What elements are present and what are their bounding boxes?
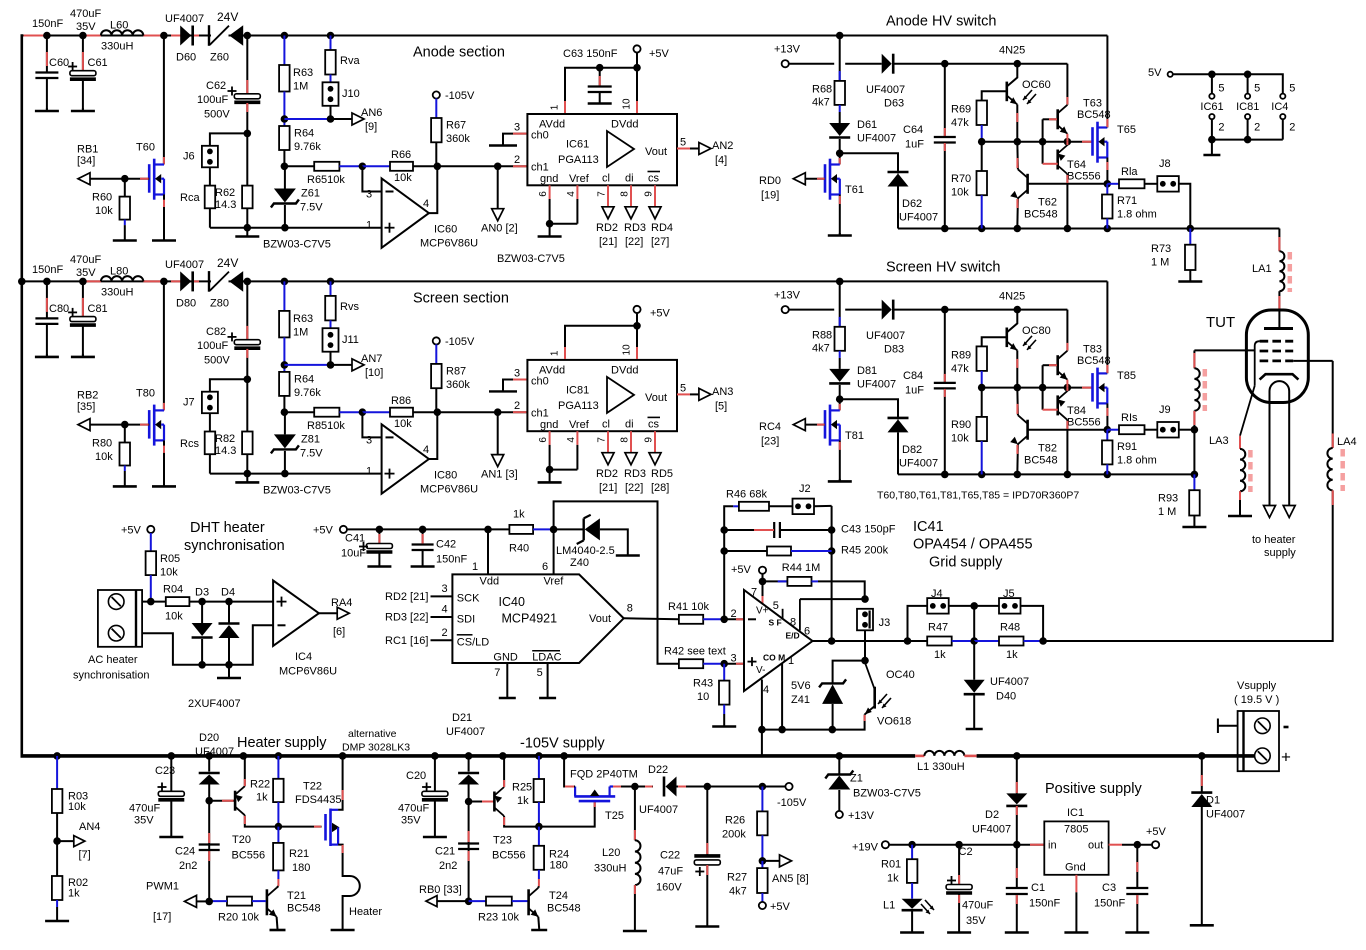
wire J2 right bbox=[814, 505, 832, 507]
resistor R47 1k bbox=[927, 637, 952, 646]
wire red stub C64 bbox=[944, 128, 946, 136]
wire OC60 collector bbox=[1007, 64, 1018, 87]
svg-text:[9]: [9] bbox=[365, 121, 377, 133]
svg-text:+5V: +5V bbox=[313, 525, 334, 537]
resistor R22 1k bbox=[273, 779, 284, 802]
wire pin2 stub IC81 bbox=[1247, 119, 1249, 139]
svg-text:D61: D61 bbox=[857, 119, 877, 131]
wire blue stub R87 bbox=[435, 344, 437, 364]
node rail/R63 bbox=[281, 278, 289, 286]
connector AC heater input bbox=[98, 590, 142, 647]
ground R93 bbox=[1182, 516, 1206, 528]
terminal arrow RB2 bbox=[78, 419, 90, 431]
wire red C2b bbox=[958, 895, 960, 903]
wire T62 collector bbox=[1016, 142, 1019, 170]
svg-text:Screen section: Screen section bbox=[413, 290, 509, 306]
svg-text:24V: 24V bbox=[217, 256, 238, 270]
svg-text:7: 7 bbox=[597, 437, 608, 443]
wire T80 drain bbox=[163, 281, 165, 410]
wire red stub C41 bbox=[378, 534, 380, 544]
svg-text:10k: 10k bbox=[68, 801, 86, 813]
wire input row bbox=[284, 411, 314, 413]
wire g1 out bbox=[1293, 360, 1333, 362]
node rail/T60 drain bbox=[160, 32, 168, 40]
node gate T25 bbox=[535, 823, 543, 831]
node 5V a bbox=[1208, 71, 1216, 79]
node D21/T23 bbox=[465, 798, 473, 806]
wire blue R44 l bbox=[778, 580, 788, 582]
tube beam plate bbox=[1260, 374, 1299, 379]
svg-text:MCP6V86U: MCP6V86U bbox=[279, 666, 337, 678]
wire gate row bbox=[982, 141, 1092, 143]
wire AC1 bbox=[142, 601, 166, 603]
terminal arrow RD2 bbox=[602, 207, 614, 219]
svg-text:R8510k: R8510k bbox=[307, 420, 345, 432]
core LA2 bbox=[1203, 369, 1208, 411]
tube grid row 2 bbox=[1260, 350, 1294, 353]
pin SCK bbox=[431, 595, 453, 597]
svg-text:D2: D2 bbox=[985, 809, 999, 821]
svg-text:R26: R26 bbox=[725, 815, 745, 827]
inductor LA1 bbox=[1279, 251, 1284, 291]
wire Z41 top bbox=[833, 661, 865, 684]
wire blue stub R67 bbox=[435, 99, 437, 119]
wire C63 top bbox=[599, 68, 601, 86]
svg-text:C41: C41 bbox=[345, 533, 365, 545]
node opto collector bbox=[1014, 306, 1022, 314]
terminal arrow RD2 bbox=[602, 453, 614, 465]
wire g2 from LA2 bbox=[1194, 349, 1254, 351]
terminal bar minus bbox=[1217, 719, 1219, 734]
wire to AN6 bbox=[331, 118, 353, 120]
svg-text:T23: T23 bbox=[493, 835, 512, 847]
transistor T80 MOSFET bbox=[149, 405, 164, 446]
zener Z1 BZW03-C7V5 bbox=[825, 771, 853, 790]
wire J8 to rail bbox=[1179, 184, 1191, 229]
svg-text:CS/LD: CS/LD bbox=[457, 637, 489, 649]
node PWM1 bbox=[205, 898, 213, 906]
svg-text:OC40: OC40 bbox=[886, 669, 915, 681]
node T61 drain bbox=[836, 150, 844, 158]
svg-text:R64: R64 bbox=[294, 128, 314, 140]
jumper J11 bbox=[323, 328, 339, 352]
node opamp out bbox=[434, 163, 442, 171]
svg-text:9: 9 bbox=[644, 437, 655, 443]
wire to D61 bbox=[839, 112, 841, 123]
wire AN0 [2] bbox=[497, 166, 499, 208]
svg-text:470uF: 470uF bbox=[70, 8, 101, 20]
node output rail bbox=[941, 471, 949, 479]
wire R45 left bbox=[724, 550, 767, 552]
svg-text:RB1: RB1 bbox=[77, 144, 98, 156]
node gate row bbox=[1039, 138, 1047, 146]
svg-text:IC80: IC80 bbox=[434, 469, 457, 481]
resistor R24 180 bbox=[534, 846, 545, 870]
svg-text:1 M: 1 M bbox=[1151, 257, 1169, 269]
svg-text:8: 8 bbox=[790, 617, 796, 629]
wire red stub in bbox=[1030, 844, 1044, 846]
opto OC40 emitter arrow bbox=[865, 706, 875, 715]
svg-text:35V: 35V bbox=[966, 915, 986, 927]
svg-text:D81: D81 bbox=[857, 365, 877, 377]
svg-text:IC4: IC4 bbox=[1271, 101, 1288, 113]
wire red R24 bot bbox=[538, 879, 540, 886]
node rail/R88 bbox=[836, 278, 844, 286]
svg-text:[22]: [22] bbox=[625, 236, 643, 248]
svg-text:10k: 10k bbox=[394, 418, 412, 430]
svg-text:2: 2 bbox=[1218, 122, 1224, 134]
pin 6 stub red bbox=[549, 185, 551, 199]
node C63 bbox=[596, 64, 604, 72]
svg-text:D62: D62 bbox=[902, 198, 922, 210]
node RB1 gate bbox=[121, 175, 129, 183]
svg-text:9: 9 bbox=[644, 191, 655, 197]
wire to D81 bbox=[839, 358, 841, 369]
wire blue stub Rvs bot bbox=[330, 320, 332, 328]
wire blue R01 top bbox=[911, 845, 913, 860]
svg-text:AN2: AN2 bbox=[712, 140, 733, 152]
wire blue R24 bot bbox=[538, 870, 540, 879]
svg-text:UF4007: UF4007 bbox=[639, 804, 678, 816]
svg-text:J3: J3 bbox=[879, 617, 891, 629]
node C64 top bbox=[941, 306, 949, 314]
svg-text:5V6: 5V6 bbox=[791, 680, 811, 692]
svg-text:AC heater: AC heater bbox=[88, 654, 138, 666]
svg-text:R64: R64 bbox=[294, 373, 314, 385]
node R64 tap bbox=[281, 115, 289, 123]
wire C2 bottom bbox=[958, 894, 960, 931]
wire blue R26 bot bbox=[761, 835, 763, 861]
wire Rla to J8 bbox=[1145, 183, 1158, 185]
wire T21 emitter bbox=[276, 917, 279, 929]
svg-text:L20: L20 bbox=[602, 847, 620, 859]
svg-text:200k: 200k bbox=[722, 829, 746, 841]
wire red stub T62e bbox=[1016, 199, 1018, 208]
svg-text:[35]: [35] bbox=[77, 401, 95, 413]
wire D61 bottom bbox=[839, 139, 841, 153]
resistor R80 10k bbox=[120, 443, 131, 466]
node output rail bbox=[1104, 471, 1112, 479]
LED L1 bbox=[902, 899, 923, 911]
resistor R44 1M bbox=[787, 577, 811, 586]
wire Vout bbox=[690, 393, 699, 395]
node gnd pin bbox=[546, 220, 554, 228]
wire red stub T64c bbox=[1066, 175, 1068, 183]
svg-text:1M: 1M bbox=[293, 81, 308, 93]
wire T82 collector bbox=[1016, 388, 1019, 416]
wire blue R91 bot bbox=[1106, 464, 1108, 474]
svg-text:T20: T20 bbox=[232, 834, 251, 846]
transistor T22 FDS4435 bbox=[326, 809, 340, 847]
wire AN5 bbox=[762, 860, 779, 862]
svg-text:Anode section: Anode section bbox=[413, 45, 505, 61]
svg-text:10k: 10k bbox=[394, 172, 412, 184]
svg-text:4N25: 4N25 bbox=[999, 290, 1025, 302]
wire blue R71 bot bbox=[1106, 219, 1108, 229]
wire J5 left bbox=[974, 605, 999, 607]
svg-text:+5V: +5V bbox=[731, 564, 752, 576]
wire GND pin bbox=[506, 663, 508, 697]
wire C61 top bbox=[82, 36, 84, 71]
wire red stub Vout bbox=[677, 393, 690, 395]
resistor R23 10k bbox=[486, 897, 512, 906]
svg-text:Z41: Z41 bbox=[791, 694, 810, 706]
svg-text:LA4: LA4 bbox=[1337, 436, 1357, 448]
node fb bbox=[359, 408, 367, 416]
svg-text:5: 5 bbox=[680, 137, 686, 149]
wire +13V bus bbox=[893, 63, 1067, 65]
wire C3 bottom bbox=[1136, 894, 1138, 931]
svg-text:500V: 500V bbox=[204, 109, 230, 121]
wire T81 drain bbox=[839, 399, 841, 410]
svg-text:AN3: AN3 bbox=[712, 386, 733, 398]
wire red stub T23c bbox=[503, 817, 505, 825]
transistor T24 BC548 bbox=[529, 888, 539, 917]
svg-text:Anode HV switch: Anode HV switch bbox=[886, 14, 996, 30]
resistor R43 10 bbox=[719, 681, 730, 705]
wire blue R93 top bbox=[1193, 474, 1195, 490]
wire red stub LA3t bbox=[1239, 436, 1241, 449]
pin 6 stub bbox=[549, 445, 551, 470]
node D20/T20 bbox=[205, 797, 213, 805]
node R05/R04 bbox=[147, 598, 155, 606]
node C82/J bbox=[244, 376, 252, 384]
capacitor C60 150nF bbox=[35, 73, 58, 79]
resistor R26 200k bbox=[757, 811, 768, 835]
wire R62 bottom bbox=[246, 208, 248, 227]
wire main 19V bus right bbox=[977, 754, 1254, 758]
svg-text:10k: 10k bbox=[160, 567, 178, 579]
svg-text:synchronisation: synchronisation bbox=[73, 670, 149, 682]
node gate row bbox=[1039, 384, 1047, 392]
svg-text:C23: C23 bbox=[155, 765, 175, 777]
svg-text:R6510k: R6510k bbox=[307, 174, 345, 186]
svg-text:150nF: 150nF bbox=[436, 554, 467, 566]
svg-text:R40: R40 bbox=[509, 543, 529, 555]
svg-text:8: 8 bbox=[620, 437, 631, 443]
resistor R41 10k bbox=[679, 615, 703, 624]
svg-text:24V: 24V bbox=[217, 10, 238, 24]
ground R43 bbox=[712, 714, 736, 727]
ground L20 bbox=[623, 926, 647, 932]
node AN6 tap bbox=[327, 115, 335, 123]
terminal arrow filament b bbox=[1283, 506, 1295, 518]
minus sign bbox=[386, 436, 394, 438]
wire T62 emitter bbox=[1016, 198, 1019, 228]
wire red L20b bbox=[634, 885, 636, 894]
wire blue R88 bot bbox=[839, 351, 841, 358]
svg-text:LM4040-2.5: LM4040-2.5 bbox=[556, 545, 615, 557]
node rail/C80 bbox=[43, 278, 51, 286]
wire C43 right bbox=[780, 529, 832, 531]
wire T22 gate bbox=[278, 826, 321, 828]
wire T60 drain bbox=[163, 36, 165, 165]
wire red stub source bbox=[839, 196, 841, 204]
svg-text:4k7: 4k7 bbox=[812, 342, 830, 354]
wire to plus bbox=[724, 663, 744, 665]
wire D1 bottom bbox=[1201, 807, 1203, 924]
svg-text:SDI: SDI bbox=[457, 613, 475, 625]
svg-text:Z60: Z60 bbox=[210, 52, 229, 64]
svg-text:-105V: -105V bbox=[445, 336, 475, 348]
svg-text:cs: cs bbox=[648, 173, 660, 185]
wire Vref to gnd bbox=[550, 223, 578, 225]
svg-text:Vref: Vref bbox=[569, 419, 590, 431]
wire opamp out bbox=[429, 412, 437, 459]
svg-text:BC556: BC556 bbox=[1067, 416, 1101, 428]
light arrows OC60 bbox=[1023, 90, 1036, 104]
wire red stub T25s bbox=[613, 786, 621, 788]
transistor T85 MOSFET bbox=[1093, 368, 1108, 409]
wire T84 collector bbox=[1066, 420, 1068, 475]
wire T65 drain bbox=[1106, 36, 1108, 128]
wire LDAC pin bbox=[547, 663, 549, 697]
wire D2 bottom bbox=[1016, 806, 1018, 845]
wire red stub emitter bbox=[1016, 113, 1018, 122]
node L20 bbox=[631, 783, 639, 791]
svg-text:2: 2 bbox=[514, 400, 520, 412]
overline CS bbox=[457, 634, 473, 636]
node Vref/Z40 bbox=[550, 526, 558, 534]
wire T61 drain bbox=[839, 153, 841, 164]
svg-text:RD5: RD5 bbox=[651, 468, 673, 480]
svg-text:C3: C3 bbox=[1102, 882, 1116, 894]
wire +13V to D63 bbox=[845, 63, 882, 65]
wire blue R23 left bbox=[469, 900, 486, 902]
svg-text:RD4: RD4 bbox=[651, 222, 673, 234]
wire R89 top bbox=[982, 337, 1007, 346]
wire Z81 bottom bbox=[284, 451, 286, 474]
light arrows OC80 bbox=[1023, 336, 1036, 350]
svg-text:R27: R27 bbox=[727, 872, 747, 884]
wire T85 source bbox=[1106, 403, 1108, 429]
svg-text:10: 10 bbox=[622, 344, 633, 356]
transistor T81 MOSFET bbox=[825, 405, 840, 446]
node output rail bbox=[978, 471, 986, 479]
wire D20 bottom bbox=[208, 785, 210, 801]
inductor L60 330uH bbox=[101, 30, 143, 35]
node AN0 [2] bbox=[494, 163, 502, 171]
zener Z61 7.5V BZW03-C7V5 bbox=[271, 189, 299, 208]
transistor T21 BC548 bbox=[267, 888, 277, 917]
svg-text:5: 5 bbox=[537, 667, 543, 679]
wire blue R02 bot bbox=[56, 900, 58, 907]
wire T23 collector bbox=[504, 816, 539, 827]
terminal arrow AN1 [3] bbox=[492, 455, 504, 467]
tube anode plate bbox=[1264, 327, 1293, 330]
svg-text:10k: 10k bbox=[951, 187, 969, 199]
terminal +5V IC41 bbox=[759, 567, 766, 574]
svg-text:Gnd: Gnd bbox=[1065, 862, 1086, 874]
svg-text:T84: T84 bbox=[1067, 405, 1086, 417]
node output rail bbox=[1064, 471, 1072, 479]
wire red stub T25d bbox=[565, 786, 574, 788]
svg-text:1k: 1k bbox=[256, 792, 268, 804]
resistor R71 1.8 ohm bbox=[1102, 195, 1113, 219]
resistor R73 1M bbox=[1185, 245, 1196, 270]
pin 2 IC61 bbox=[1209, 114, 1214, 119]
wire red stub source bbox=[839, 442, 841, 450]
svg-text:out: out bbox=[1088, 840, 1103, 852]
node minus IC41 bbox=[720, 616, 728, 624]
zener Z60 24V bbox=[209, 25, 243, 46]
terminal arrow PWM1 bbox=[185, 895, 197, 907]
wire red stub C62 bot bbox=[246, 103, 248, 112]
wire red stub C61 bbox=[82, 52, 84, 71]
wire ch0 gnd hook bbox=[489, 144, 517, 146]
wire Vref tap bbox=[554, 501, 679, 663]
svg-text:R87: R87 bbox=[446, 365, 466, 377]
wire blue R22 top bbox=[277, 756, 279, 779]
capacitor C42 150nF bbox=[412, 545, 434, 551]
wire red C22t bbox=[706, 843, 708, 854]
wire red stub LA3b bbox=[1239, 491, 1241, 500]
svg-text:UF4007: UF4007 bbox=[1206, 809, 1245, 821]
svg-text:500V: 500V bbox=[204, 354, 230, 366]
wire red C3t bbox=[1136, 862, 1138, 872]
wire red R21 bot bbox=[277, 879, 279, 886]
core LA1 bbox=[1288, 252, 1293, 292]
svg-text:10k: 10k bbox=[95, 451, 113, 463]
wire D2 top bbox=[1016, 756, 1018, 794]
transistor T82 BC548 bbox=[1010, 415, 1027, 444]
svg-text:RIs: RIs bbox=[1121, 412, 1138, 424]
svg-text:Positive supply: Positive supply bbox=[1045, 781, 1142, 797]
resistor R48 1k bbox=[999, 637, 1024, 646]
node bus C23 bbox=[168, 752, 176, 760]
wire red stub ch0 bbox=[513, 379, 526, 381]
svg-text:+: + bbox=[1281, 748, 1291, 767]
node rail/C82 bbox=[244, 278, 252, 286]
resistor R27 4k7 bbox=[757, 868, 768, 893]
wire red L20t bbox=[634, 830, 636, 840]
zener Z81 7.5V BZW03-C7V5 bbox=[271, 434, 299, 453]
wire red stub T20e bbox=[244, 779, 246, 786]
wire R60 top bbox=[124, 179, 126, 197]
svg-text:OC80: OC80 bbox=[1022, 325, 1051, 337]
plus sign opamp bbox=[385, 223, 395, 233]
node Z81 bottom bbox=[281, 470, 289, 478]
svg-text:to heater: to heater bbox=[1252, 534, 1296, 546]
capacitor C22 47uF 160V bbox=[694, 856, 720, 865]
ground C2 bbox=[947, 931, 971, 933]
svg-text:ch1: ch1 bbox=[531, 162, 549, 174]
svg-text:C81: C81 bbox=[88, 303, 108, 315]
ground C42 bbox=[411, 550, 435, 567]
svg-text:R67: R67 bbox=[446, 120, 466, 132]
resistor R91 1.8 ohm bbox=[1102, 440, 1113, 464]
svg-text:Vref: Vref bbox=[544, 576, 565, 588]
wire red stub T22g bbox=[314, 826, 321, 828]
jumper J3 bbox=[857, 609, 873, 631]
wire C82 top bbox=[246, 281, 248, 339]
resistor R01 1k bbox=[907, 859, 918, 883]
node output rail bbox=[1014, 471, 1022, 479]
svg-text:6: 6 bbox=[804, 626, 810, 638]
svg-text:C61: C61 bbox=[88, 57, 108, 69]
svg-text:OPA454 / OPA455: OPA454 / OPA455 bbox=[913, 537, 1033, 553]
svg-text:C21: C21 bbox=[435, 846, 455, 858]
svg-text:J8: J8 bbox=[1159, 158, 1171, 170]
svg-text:RD3: RD3 bbox=[624, 222, 646, 234]
wire DVdd bbox=[636, 68, 638, 114]
wire R04 to D3 bbox=[189, 601, 273, 603]
node output rail bbox=[1014, 225, 1022, 233]
resistor R60 10k bbox=[120, 197, 131, 220]
svg-text:UF4007: UF4007 bbox=[990, 676, 1029, 688]
wire T83 collector bbox=[1066, 310, 1068, 351]
node Z61 bottom bbox=[281, 224, 289, 232]
